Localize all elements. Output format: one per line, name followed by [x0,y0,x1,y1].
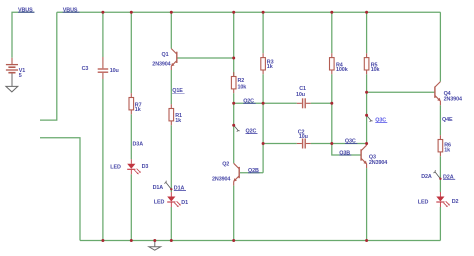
capacitor C2 [297,129,311,148]
svg-text:D2A: D2A [421,174,432,180]
svg-text:10u: 10u [299,134,308,140]
svg-text:R2: R2 [238,78,245,84]
capacitor C1 [296,86,311,108]
wire bottom rail [80,240,440,242]
svg-text:D1: D1 [181,200,188,206]
svg-text:LED: LED [418,199,429,205]
wire Q2 base [240,172,263,174]
wire Q4 collector from rail [439,12,441,81]
svg-text:100k: 100k [336,67,348,73]
svg-text:LED: LED [110,164,121,170]
wire R7 to D3 [130,114,132,159]
net label D1A (right) [174,186,186,192]
wire D1 to bottom rail [170,207,172,241]
transistor Q1 (2N3904, mirrored) [152,49,177,70]
svg-text:D1A: D1A [153,185,164,191]
wire R5 down to Q3C junction [366,74,368,143]
svg-text:10k: 10k [371,67,380,73]
wire Q4 emitter down [439,105,441,135]
svg-text:Q3B: Q3B [339,150,350,156]
resistor R5 [364,53,379,74]
transistor Q3 (2N3904) [361,144,387,169]
net label Q1E [172,88,185,94]
svg-text:5: 5 [19,73,22,79]
net label Q4E [442,117,453,123]
net label flag D2A [421,170,441,180]
svg-text:Q2: Q2 [222,161,229,167]
svg-text:1k: 1k [175,118,181,124]
wire Q4 base from R5 column [367,91,435,93]
junction dots bottom rail [101,239,368,242]
net label D2A (right) [443,174,455,180]
svg-text:2N3904: 2N3904 [152,62,170,68]
junction dots Q3C net [262,142,369,145]
svg-text:D3: D3 [142,164,149,170]
wire D3 to bottom rail [130,174,132,240]
resistor R1 [169,104,182,125]
net label VBUS (second) [63,7,80,13]
net label VBUS (left) [18,7,34,13]
svg-text:Q2B: Q2B [248,168,259,174]
net label Q2B [248,168,260,174]
battery V1 [6,58,25,79]
junction dot Q4 base [365,91,368,94]
junction dots Q2C net [232,102,333,105]
resistor R6 [438,135,451,156]
LED D2 [418,192,459,207]
svg-text:LED: LED [154,199,165,205]
wire VBUS top rail [57,11,441,13]
wire R2 column top [233,12,235,76]
wire Q3 emitter to bottom rail [366,168,368,240]
capacitor C3 [82,57,119,79]
svg-text:D2: D2 [452,199,459,205]
ground under battery [6,74,18,92]
transistor Q2 (2N3904, mirrored) [212,161,239,185]
wire R3 column top [262,12,264,53]
wire R4 column top [331,12,333,53]
wire stub B to bottom rail [40,138,80,241]
wire C2 right to Q3C junctions [311,143,367,145]
wire C1 right to R4 column [311,102,332,104]
svg-text:10u: 10u [296,92,305,98]
svg-text:2N3904: 2N3904 [444,97,462,103]
wire R1 to D1 [170,125,172,192]
junction dots top rail [101,11,368,14]
svg-text:10u: 10u [110,68,119,74]
wire C3 column bottom [102,79,104,241]
net label Q2C (on wire) [243,99,256,105]
svg-text:Q1: Q1 [162,52,169,58]
wire VBUS stub left [12,12,34,58]
ground at bottom rail [149,241,161,251]
resistor R2 [231,72,246,93]
svg-text:Q4E: Q4E [442,117,453,123]
svg-text:1k: 1k [444,147,450,153]
net label flag Q3C [365,114,387,124]
svg-text:2N3904: 2N3904 [212,177,230,183]
svg-text:10k: 10k [238,85,247,91]
wire Q1 base to R2 column [178,57,234,59]
svg-text:C3: C3 [82,66,89,72]
svg-text:D3A: D3A [133,141,144,147]
svg-text:1k: 1k [135,107,141,113]
svg-text:1k: 1k [267,64,273,70]
wire Q1 collector from rail [170,12,172,48]
wire R7/D3 column top [130,12,132,93]
LED D3 [110,159,148,174]
svg-text:2N3904: 2N3904 [369,160,387,166]
wire Q2C horizontal [234,102,297,104]
wire R3 down to Q2 base corner [262,74,264,173]
transistor Q4 (2N3904) [435,82,462,106]
wire R2 to Q2 collector column [233,93,235,163]
junction dot Q1 base / R2 column [232,57,235,60]
wire R5 column top [366,12,368,53]
wire C2 horizontal left [263,143,297,145]
wire D2 to bottom rail [439,207,441,241]
wire VBUS column down to stub A [40,12,57,120]
resistor R4 [330,53,348,74]
net label Q3B [339,150,351,156]
svg-text:Q1E: Q1E [172,88,183,94]
wire R4 down and to Q3 base [332,74,361,155]
LED D1 [154,192,188,207]
net label Q3C (on wire) [345,139,358,145]
resistor R3 [261,53,274,74]
wire Q2 emitter to bottom rail [233,186,235,241]
wire Q1 emitter down [170,70,172,104]
wire C3 column top [102,12,104,57]
net label flag D1A [153,181,173,191]
net label flag Q2C [232,124,257,135]
wire R6 to D2 [439,156,441,192]
resistor R7 [129,93,142,114]
